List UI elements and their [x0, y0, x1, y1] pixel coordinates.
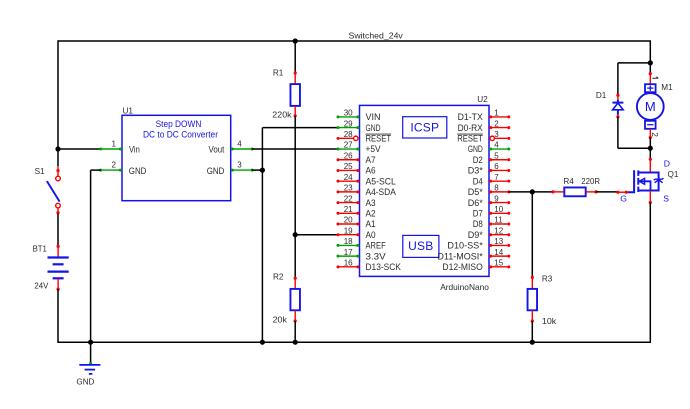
svg-text:M: M	[645, 99, 656, 114]
svg-text:D1-TX: D1-TX	[458, 111, 484, 122]
svg-text:GND: GND	[76, 378, 94, 387]
wire bottom rail	[57, 341, 651, 343]
svg-text:25: 25	[344, 162, 353, 171]
wire divider node to R2	[294, 235, 296, 279]
svg-text:3: 3	[494, 130, 499, 139]
wire Switched_24v top	[58, 40, 651, 42]
svg-text:29: 29	[344, 119, 353, 128]
svg-text:4: 4	[237, 140, 242, 149]
svg-text:16: 16	[344, 259, 353, 268]
svg-text:13: 13	[494, 237, 503, 246]
U2 pin 4 GND stub	[489, 148, 510, 151]
svg-text:5: 5	[494, 151, 499, 160]
svg-text:4: 4	[494, 141, 499, 150]
node junction divider A0	[293, 232, 298, 237]
svg-text:18: 18	[344, 237, 353, 246]
wire junction to motor	[649, 63, 651, 74]
svg-text:M1: M1	[661, 83, 673, 92]
node junction U1 GND	[260, 168, 265, 173]
U2 pin 23 A4-SDA stub	[337, 190, 360, 193]
U2 pin 18 AREF stub	[337, 244, 360, 247]
svg-text:USB: USB	[408, 239, 433, 253]
U1 pin 4 Vout stub	[231, 148, 254, 151]
wire to D1 top	[618, 63, 650, 95]
svg-text:D1: D1	[596, 91, 607, 100]
U2 pin 1 D1-TX stub	[489, 115, 510, 118]
svg-text:23: 23	[344, 184, 353, 193]
wire R1 to divider node	[294, 116, 296, 235]
U2 pin 20 A1 stub	[337, 223, 360, 226]
svg-text:27: 27	[344, 141, 353, 150]
U2 pin 24 A5-SCL stub	[337, 180, 360, 183]
svg-text:D4: D4	[473, 175, 483, 186]
svg-text:30: 30	[344, 109, 353, 118]
svg-text:ArduinoNano: ArduinoNano	[440, 282, 489, 292]
svg-text:GND: GND	[366, 122, 381, 133]
svg-text:7: 7	[494, 173, 499, 182]
motor M1 pin 1 number	[652, 77, 658, 79]
svg-text:Q1: Q1	[668, 170, 679, 179]
U2 pin 21 A2 stub	[337, 212, 360, 215]
wire GND column down	[90, 170, 92, 342]
U2 pin 8 D5* stub	[489, 190, 510, 193]
node junction motor bottom	[648, 146, 653, 151]
U2 pin 13 D10-SS* stub	[489, 244, 510, 247]
node junction motor diode top	[648, 60, 653, 65]
svg-text:ICSP: ICSP	[410, 121, 439, 135]
wire top rail to R1	[294, 41, 296, 73]
svg-text:D7: D7	[473, 207, 483, 218]
svg-text:2: 2	[494, 119, 499, 128]
svg-text:S1: S1	[35, 167, 45, 176]
U2 pin 17 3.3V stub	[337, 255, 360, 258]
svg-text:10: 10	[494, 205, 503, 214]
resistor R2	[290, 277, 300, 323]
resistor R1	[290, 71, 300, 117]
svg-text:A5-SCL: A5-SCL	[366, 175, 396, 186]
svg-text:220R: 220R	[581, 177, 600, 186]
svg-text:11: 11	[494, 216, 503, 225]
wire R3 to bottom rail	[531, 321, 533, 342]
node junction GND rail	[260, 340, 265, 345]
svg-text:A7: A7	[366, 154, 376, 165]
svg-text:Switched_24v: Switched_24v	[349, 30, 404, 40]
svg-text:G: G	[620, 193, 627, 203]
svg-text:220k: 220k	[272, 110, 292, 119]
wire junction to switch S1	[57, 149, 59, 166]
svg-text:8: 8	[494, 184, 499, 193]
wire motor to drain junction	[649, 138, 651, 149]
U2 pin 19 A0 stub	[337, 233, 360, 236]
svg-text:20k: 20k	[273, 315, 288, 324]
wire Vin to U1 pin 1	[58, 148, 101, 150]
svg-text:DC to DC Converter: DC to DC Converter	[143, 130, 219, 141]
U2 pin name RESET	[366, 133, 392, 144]
svg-text:D0-RX: D0-RX	[458, 122, 484, 133]
svg-text:U1: U1	[123, 106, 134, 115]
svg-text:6: 6	[494, 162, 499, 171]
wire GND net to U2 pin 29	[262, 127, 338, 129]
U2 pin 16 D13-SCK stub	[337, 265, 360, 268]
wire U1 pin3 to GND net	[252, 169, 262, 171]
svg-text:Step DOWN: Step DOWN	[156, 119, 202, 130]
U2 pin 2 D0-RX stub	[489, 126, 510, 129]
svg-text:3: 3	[237, 161, 242, 170]
svg-text:+5V: +5V	[366, 143, 382, 154]
svg-text:Vin: Vin	[129, 143, 140, 154]
svg-text:1: 1	[494, 109, 499, 118]
svg-text:D3*: D3*	[468, 165, 483, 176]
svg-text:R2: R2	[273, 272, 284, 281]
svg-text:R4: R4	[563, 177, 574, 186]
svg-text:D8: D8	[473, 218, 483, 229]
svg-text:U2: U2	[477, 95, 488, 104]
U2 pin 26 A7 stub	[337, 158, 360, 161]
svg-text:S: S	[663, 193, 669, 203]
svg-text:A1: A1	[366, 218, 376, 229]
svg-text:R1: R1	[273, 69, 284, 78]
svg-text:22: 22	[344, 194, 353, 203]
U2 pin 27 +5V stub	[337, 148, 360, 151]
USB box	[403, 235, 439, 257]
svg-text:D5*: D5*	[468, 186, 483, 197]
svg-text:19: 19	[344, 226, 353, 235]
svg-text:A6: A6	[366, 165, 376, 176]
wire U1 pin2 to GND column	[91, 169, 101, 171]
svg-text:20: 20	[344, 216, 353, 225]
svg-text:GND: GND	[129, 165, 147, 176]
wire Q1 source to bottom rail	[649, 203, 651, 343]
svg-text:BT1: BT1	[33, 245, 48, 254]
U2 pin 9 D6* stub	[489, 201, 510, 204]
svg-text:D10-SS*: D10-SS*	[447, 240, 483, 251]
svg-text:14: 14	[494, 248, 503, 257]
svg-text:10k: 10k	[542, 317, 557, 326]
wire BT1 to bottom rail	[57, 289, 59, 342]
resistor R4	[551, 187, 597, 196]
svg-text:1: 1	[112, 140, 117, 149]
wire R4 to Q1 gate	[596, 191, 618, 193]
U2 pin 12 D9* stub	[489, 233, 510, 236]
wire S1 to BT1	[57, 214, 59, 247]
U2 pin 14 D11-MOSI* stub	[489, 255, 510, 258]
svg-text:2: 2	[112, 161, 117, 170]
svg-text:9: 9	[494, 194, 499, 203]
svg-text:A3: A3	[366, 197, 376, 208]
U1 pin 2 GND stub	[99, 169, 122, 172]
motor M1	[637, 72, 664, 139]
dc-dc converter U1 box	[122, 115, 231, 200]
wire to Q1 drain	[649, 148, 651, 159]
diode D1	[612, 94, 623, 119]
U1 pin 3 GND stub	[231, 169, 254, 172]
svg-text:12: 12	[494, 226, 503, 235]
svg-text:26: 26	[344, 151, 353, 160]
svg-text:D12-MISO: D12-MISO	[442, 261, 482, 272]
svg-text:17: 17	[344, 248, 353, 257]
svg-text:D13-SCK: D13-SCK	[366, 261, 402, 272]
wire D5 to R3 junction	[509, 191, 553, 193]
svg-text:24V: 24V	[34, 282, 48, 291]
svg-text:D2: D2	[473, 154, 483, 165]
U2 pin 25 A6 stub	[337, 169, 360, 172]
wire divider node to A0 pin	[295, 234, 338, 236]
U2 pin name RESET	[457, 133, 483, 144]
node junction R3 bottom	[530, 340, 535, 345]
U2 pin 5 D2 stub	[489, 158, 510, 161]
ground symbol GND	[79, 362, 100, 374]
U2 pin 11 D8 stub	[489, 223, 510, 226]
wire top rail right corner down	[649, 41, 651, 63]
svg-text:21: 21	[344, 205, 353, 214]
node junction Vin tap	[55, 146, 60, 151]
svg-text:28: 28	[344, 130, 353, 139]
svg-text:3.3V: 3.3V	[366, 250, 387, 261]
svg-text:R3: R3	[542, 274, 553, 283]
wire to GND symbol	[90, 342, 92, 363]
U2 pin 3 RESET stub	[490, 136, 510, 140]
svg-text:15: 15	[494, 259, 503, 268]
svg-text:2: 2	[650, 132, 659, 137]
svg-text:Vout: Vout	[209, 143, 225, 154]
U1 pin 1 Vin stub	[99, 148, 122, 151]
wire D1 bottom	[618, 117, 650, 148]
ICSP box	[403, 117, 447, 138]
wire junction to R3	[531, 192, 533, 278]
wire left battery branch upper	[57, 40, 59, 149]
svg-text:D: D	[664, 158, 670, 168]
U2 pin 10 D7 stub	[489, 212, 510, 215]
wire R2 to bottom rail	[294, 321, 296, 342]
svg-text:D11-MOSI*: D11-MOSI*	[437, 250, 483, 261]
wire Vout 5V net to U2 pin 27	[252, 148, 338, 150]
switch S1	[47, 166, 60, 214]
svg-text:D9*: D9*	[468, 229, 483, 240]
wire GND net vertical	[261, 128, 263, 343]
mosfet Q1	[616, 158, 663, 204]
node junction R2 bottom	[293, 340, 298, 345]
svg-text:A4-SDA: A4-SDA	[366, 186, 397, 197]
U2 pin 29 GND stub	[337, 126, 360, 129]
battery BT1	[48, 245, 69, 291]
resistor R3	[528, 276, 538, 323]
svg-text:D6*: D6*	[468, 197, 483, 208]
U2 pin 15 D12-MISO stub	[489, 265, 510, 268]
arduino U2 box	[360, 105, 490, 276]
svg-text:AREF: AREF	[366, 240, 386, 251]
svg-text:VIN: VIN	[366, 111, 381, 122]
U2 pin 22 A3 stub	[337, 201, 360, 204]
U2 pin 7 D4 stub	[489, 180, 510, 183]
svg-text:A0: A0	[366, 229, 376, 240]
U2 pin 28 RESET stub	[337, 136, 358, 140]
svg-text:GND: GND	[207, 165, 225, 176]
node junction top R1 tap	[293, 38, 298, 43]
svg-text:24: 24	[344, 173, 353, 182]
U2 pin 6 D3* stub	[489, 169, 510, 172]
svg-text:GND: GND	[468, 143, 483, 154]
svg-text:A2: A2	[366, 207, 376, 218]
U2 pin 30 VIN stub	[337, 115, 360, 118]
node junction R3 top	[530, 189, 535, 194]
node junction GND bottom	[88, 340, 93, 345]
